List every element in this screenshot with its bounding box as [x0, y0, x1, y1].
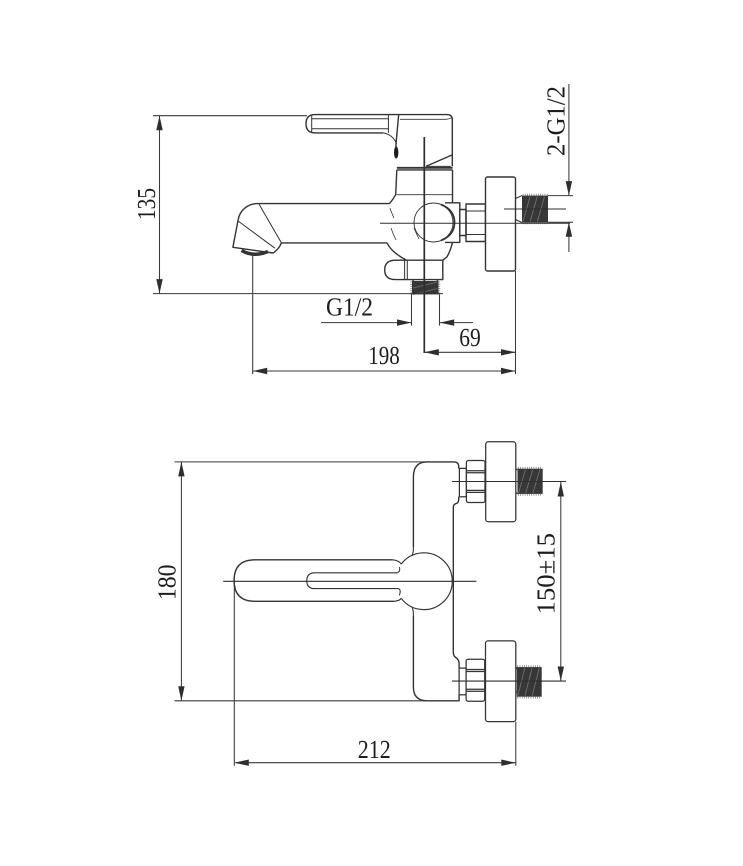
svg-text:G1/2: G1/2 [326, 293, 373, 322]
svg-text:2-G1/2: 2-G1/2 [542, 86, 571, 156]
svg-text:150±15: 150±15 [532, 533, 561, 615]
svg-text:212: 212 [358, 735, 391, 764]
svg-text:180: 180 [153, 565, 182, 601]
svg-text:135: 135 [132, 188, 161, 220]
svg-text:198: 198 [368, 341, 400, 370]
svg-text:69: 69 [459, 323, 481, 352]
